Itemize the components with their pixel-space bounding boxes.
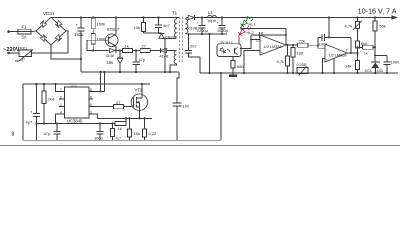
- svg-text:1k: 1k: [118, 126, 122, 131]
- secondary winding bottom wire: [185, 32, 186, 35]
- svg-text:47µ: 47µ: [44, 131, 51, 136]
- capacitor 47µ: [133, 51, 146, 74]
- capacitor 100n right: [374, 54, 399, 74]
- svg-text:1/2 LM358: 1/2 LM358: [264, 45, 282, 49]
- svg-text:150µ: 150µ: [74, 32, 84, 37]
- primary bottom wire: [162, 38, 177, 40]
- resistor 100k upper: [91, 16, 105, 28]
- svg-text:-t°: -t°: [21, 57, 26, 62]
- capacitor 2200µ: [197, 16, 209, 35]
- capacitor 100n: [94, 122, 104, 140]
- svg-text:UC3845: UC3845: [67, 118, 83, 123]
- wire to gnd bar: [232, 68, 234, 76]
- resistor 4,7k timing: [111, 122, 122, 140]
- transistor KT817: [105, 27, 121, 47]
- sense row y118.3: [98, 117, 153, 119]
- bridge rectifier VD31: [36, 11, 66, 45]
- svg-text:2k4: 2k4: [48, 96, 55, 101]
- bottom ground rail: [23, 139, 221, 141]
- svg-text:KT817: KT817: [107, 27, 120, 32]
- svg-text:47µ: 47µ: [139, 57, 146, 62]
- svg-text:2: 2: [60, 96, 62, 100]
- wire: [125, 118, 127, 123]
- secondary top wire: [185, 18, 188, 20]
- svg-text:4148: 4148: [160, 53, 169, 58]
- svg-text:27: 27: [142, 43, 147, 48]
- svg-text:1: 1: [60, 103, 62, 107]
- pin7 wire up to rail: [89, 98, 93, 100]
- svg-text:100k: 100k: [97, 21, 106, 26]
- snubber capacitor 4n7: [155, 16, 170, 32]
- secondary gnd bus: [200, 72, 398, 74]
- resistor 4,7k: [277, 45, 290, 74]
- op-amp U1a 1/2 LM358: [260, 35, 286, 55]
- svg-text:10k: 10k: [134, 25, 140, 30]
- output arrow: [392, 15, 399, 19]
- svg-text:VD31: VD31: [43, 11, 55, 16]
- secondary top rail: [195, 17, 393, 19]
- resistor 0,22: [143, 117, 158, 140]
- AC terminal bottom: [7, 52, 10, 55]
- opto collector wire: [240, 35, 251, 49]
- zener 18v: [107, 51, 124, 74]
- svg-text:+: +: [76, 23, 79, 28]
- bus to bottom rail: [220, 72, 222, 74]
- optocoupler PC817: [217, 40, 241, 57]
- svg-text:180: 180: [296, 51, 303, 56]
- wire: [43, 104, 45, 124]
- thermistor RK1: [15, 46, 33, 62]
- base wire: [87, 40, 105, 50]
- resistor 680: [231, 61, 244, 70]
- AC terminal top: [7, 30, 10, 33]
- resistor 56k: [373, 16, 386, 48]
- wire tl431 ref drop: [333, 58, 335, 73]
- svg-text:10µH: 10µH: [207, 18, 217, 23]
- pin1 wire to vcc line: [56, 84, 60, 92]
- svg-text:100n: 100n: [94, 135, 103, 140]
- svg-text:4: 4: [60, 111, 62, 115]
- vcc feed line y84: [23, 83, 150, 85]
- pin6 wire to gate resistor: [93, 106, 114, 108]
- resistor 1k horizontal: [358, 45, 376, 55]
- svg-text:680: 680: [237, 64, 244, 69]
- opamp2 output wire: [347, 52, 358, 54]
- snubber resistor 10k: [134, 16, 146, 32]
- wire: [31, 30, 36, 33]
- inductor L1: [207, 10, 217, 23]
- wire: [116, 50, 123, 52]
- Y-capacitor 10n: [173, 103, 190, 140]
- wire: [150, 50, 161, 52]
- shunt 0,05R: [297, 63, 309, 75]
- left vertical rail: [22, 84, 24, 140]
- resistor 1k sense: [115, 122, 126, 131]
- svg-text:7: 7: [60, 88, 62, 92]
- svg-text:0,05R: 0,05R: [297, 63, 307, 67]
- svg-text:14k: 14k: [345, 64, 351, 69]
- gnd rail step down to Y-cap: [177, 72, 179, 103]
- vcc row wire: [87, 50, 109, 52]
- bridge minus wire: [51, 45, 81, 59]
- node: [80, 58, 82, 60]
- svg-text:10k: 10k: [134, 131, 140, 136]
- wire to opamp2 minus: [308, 45, 325, 48]
- emitter wire: [115, 46, 117, 51]
- opto LED cathode wire: [232, 57, 234, 61]
- svg-text:~220V: ~220V: [3, 47, 20, 53]
- svg-text:27: 27: [116, 100, 121, 105]
- LED node wire to output column: [241, 27, 286, 29]
- resistor 22k opamp2: [298, 38, 309, 47]
- collector wire: [115, 18, 117, 35]
- svg-text:4148: 4148: [106, 53, 115, 58]
- output wire: [286, 44, 298, 46]
- wire: [133, 50, 141, 52]
- svg-text:4,7k: 4,7k: [277, 59, 285, 64]
- svg-text:4µ7: 4µ7: [26, 120, 34, 125]
- wire row y123.5: [37, 123, 116, 125]
- fuse F1 5A: [18, 24, 31, 39]
- resistor 10k source: [128, 117, 140, 140]
- svg-text:3: 3: [90, 111, 92, 115]
- pin5 wire: [93, 114, 98, 118]
- diode 4148 aux: [160, 48, 169, 58]
- MOSFET VT1: [131, 88, 147, 111]
- svg-text:0,22: 0,22: [149, 131, 158, 136]
- svg-text:10n: 10n: [183, 104, 190, 109]
- transformer T1: [172, 10, 188, 63]
- resistor 180: [291, 45, 304, 74]
- pin4 wire down: [56, 114, 60, 124]
- svg-text:431: 431: [377, 68, 384, 73]
- capacitor 150µ: [74, 16, 85, 72]
- feedback capacitor 100n opamp2: [318, 16, 351, 53]
- node: [43, 83, 45, 85]
- svg-text:5: 5: [90, 103, 92, 107]
- pin8 wire up to rail: [89, 91, 104, 93]
- svg-text:5A: 5A: [22, 35, 27, 40]
- resistor 1k: [123, 43, 133, 52]
- svg-text:1k: 1k: [364, 50, 368, 55]
- svg-text:2C1: 2C1: [365, 68, 372, 73]
- svg-text:1/2 LM358: 1/2 LM358: [329, 54, 347, 58]
- source wire: [138, 107, 140, 119]
- svg-text:1000µ: 1000µ: [217, 28, 229, 33]
- capacitor 2n2: [185, 34, 200, 73]
- svg-text:T1: T1: [172, 10, 178, 15]
- wire: [92, 44, 94, 51]
- svg-text:2n2: 2n2: [190, 44, 197, 49]
- svg-text:F1: F1: [22, 24, 28, 29]
- resistor 5k6: [356, 29, 369, 49]
- svg-text:RK1: RK1: [20, 46, 27, 50]
- svg-text:56k: 56k: [380, 24, 386, 29]
- LED HL2 red: [237, 26, 254, 44]
- svg-text:4,7: 4,7: [116, 135, 122, 140]
- capacitor 1000µ: [217, 16, 229, 35]
- diode FR207: [159, 34, 178, 40]
- svg-text:HL1: HL1: [249, 22, 256, 27]
- svg-text:7: 7: [346, 49, 348, 53]
- bottom page edge line: [0, 144, 400, 146]
- gate resistor 27: [114, 100, 124, 109]
- gnd bar: [229, 75, 237, 77]
- resistor 14k: [345, 60, 360, 74]
- diode 4148: [106, 48, 116, 58]
- IC1 UC3845: [59, 84, 93, 123]
- node between LEDs: [240, 27, 242, 29]
- opamp1 minus input wire: [251, 39, 260, 41]
- svg-text:HL2: HL2: [247, 30, 254, 35]
- opamp1 plus input wire: [244, 51, 260, 74]
- svg-text:L1: L1: [208, 10, 213, 15]
- op-amp U1b 1/2 LM358: [325, 44, 348, 62]
- drain wire: [141, 84, 143, 98]
- LED HL1 green: [239, 16, 255, 28]
- svg-text:4n7: 4n7: [163, 23, 170, 28]
- resistor 27: [140, 43, 150, 52]
- svg-text:18v: 18v: [107, 60, 115, 65]
- wire: [144, 32, 162, 34]
- wire: [9, 52, 19, 54]
- wire minus rail down: [208, 33, 210, 35]
- svg-text:100n: 100n: [391, 59, 400, 64]
- wire: [92, 29, 94, 34]
- wire: [124, 106, 134, 108]
- svg-text:10-16 V, 7 A: 10-16 V, 7 A: [358, 7, 397, 16]
- capacitor 4µ7: [26, 83, 41, 140]
- aux winding bottom wire: [170, 64, 176, 72]
- svg-text:1k: 1k: [125, 43, 129, 48]
- plus input gnd wire: [323, 59, 326, 74]
- trimmer 4,7k: [345, 16, 363, 30]
- secondary minus rail: [187, 33, 227, 35]
- primary gnd rail: [81, 71, 179, 73]
- top rail primary: [51, 17, 179, 19]
- svg-text:4,7k: 4,7k: [345, 23, 353, 28]
- wire: [32, 31, 69, 53]
- wire to aux winding: [167, 50, 177, 52]
- wire: [9, 31, 18, 33]
- wire: [357, 48, 359, 60]
- svg-text:22k: 22k: [299, 38, 305, 43]
- svg-text:2200µ: 2200µ: [197, 28, 209, 33]
- output diode 5010B: [187, 15, 198, 30]
- resistor 2k4: [42, 84, 55, 104]
- feedback capacitor 220k: [251, 28, 287, 45]
- svg-text:8: 8: [12, 131, 15, 137]
- TL431: [365, 47, 384, 74]
- capacitor 47n: [44, 122, 61, 140]
- resistor 100k lower: [91, 33, 105, 44]
